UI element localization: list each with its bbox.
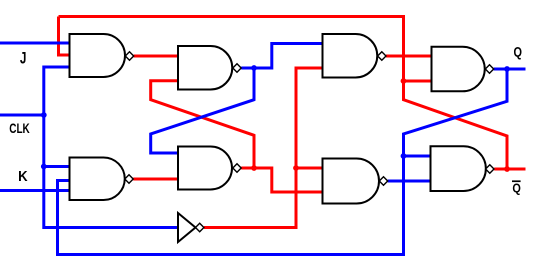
- wire: clock distribution vertical to U1, U3 and inverter U9: [44, 67, 179, 228]
- node: junction clock to U3: [41, 164, 47, 170]
- nand gate U6 (slave input bottom): [323, 159, 380, 204]
- nand gate U1 (J steering gate): [70, 34, 126, 77]
- node: junction CLK entry: [41, 112, 47, 118]
- wire: gate U1 output to gate U2 input: [134, 55, 179, 58]
- inversion diamond gate U6: [379, 177, 387, 185]
- wire: gate U4 output cross-couple to gate U2 lower input: [151, 81, 254, 168]
- nand gate U7 (slave latch top, Q): [432, 47, 485, 92]
- svg-text:Q: Q: [512, 180, 521, 195]
- nand gate U2 (master latch top): [178, 46, 232, 90]
- wire: gate U2 output cross-couple to gate U4 upper input: [151, 68, 254, 153]
- nand gate U4 (master latch bottom): [178, 147, 232, 190]
- wire: feedback branch to gate U7 lower input: [404, 80, 433, 83]
- wire: Q feedback branch to gate U8 upper input: [404, 155, 432, 158]
- label Q-bar overbar: [512, 180, 521, 182]
- nand gate U8 (slave latch bottom, Q-bar): [431, 146, 486, 191]
- inversion diamond gate U8: [486, 165, 494, 173]
- node: junction Q-bar output: [504, 166, 510, 172]
- wire: CLK input: [0, 114, 44, 117]
- wire: gate U4 output to junction: [241, 167, 254, 170]
- wire: gate U6 output to gate U8 lower input: [388, 180, 432, 183]
- inversion diamond gate U4: [233, 164, 241, 172]
- inversion diamond gate U1: [125, 52, 133, 60]
- nand gate U3 (K steering gate): [70, 158, 125, 201]
- inversion diamond gate U7: [485, 65, 493, 73]
- node: junction Q output: [504, 66, 510, 72]
- wire: inverted clock net from U9 output to gate U5 lower input: [204, 68, 323, 228]
- inverter U9 (clock inverter): [178, 213, 196, 242]
- wire: gate U5 output to gate U7 upper input: [386, 55, 432, 58]
- wire: gate U2 output to junction: [241, 67, 254, 70]
- wire: K input to gate U3: [0, 189, 71, 192]
- wire: inverted clock branch to gate U6 upper input: [296, 167, 323, 170]
- node: junction U2 output: [251, 65, 257, 71]
- svg-text:CLK: CLK: [9, 121, 30, 136]
- inversion diamond gate U3: [125, 175, 133, 183]
- wire: clock branch to gate U3 upper input: [44, 165, 71, 168]
- svg-text:Q: Q: [513, 44, 522, 59]
- wire: top feedback horizontal run: [59, 17, 404, 82]
- wire: gate U2 output to gate U5 upper input: [254, 44, 323, 69]
- node: junction U4 output: [251, 165, 257, 171]
- wire: Q-bar output from gate U8: [494, 168, 525, 171]
- node: junction inverted clock at U6 input row: [293, 165, 299, 171]
- svg-text:J: J: [20, 49, 27, 67]
- wire: gate U4 output branch to gate U6 lower input: [254, 168, 323, 192]
- node: junction Q-bar feedback: [401, 78, 407, 84]
- inversion diamond gate U5: [378, 52, 386, 60]
- nand gate U5 (slave input top): [323, 34, 378, 78]
- wire: Q-bar feedback into gate U1 middle input (top red net): [59, 17, 71, 56]
- wire: J input to gate U1: [0, 42, 71, 45]
- wire: Q output from gate U7: [494, 68, 526, 71]
- wire: gate U3 output to gate U4 lower input: [133, 178, 178, 181]
- inversion diamond gate U2: [233, 64, 241, 72]
- inversion diamond inverter U9: [196, 223, 204, 231]
- node: junction Q feedback at U8: [401, 153, 407, 159]
- wire: Q feedback to gate U8 and gate U3 middle input: [58, 69, 508, 255]
- svg-text:K: K: [18, 169, 28, 185]
- wire: Q-bar cross-couple diagonal to slave latch: [404, 81, 508, 169]
